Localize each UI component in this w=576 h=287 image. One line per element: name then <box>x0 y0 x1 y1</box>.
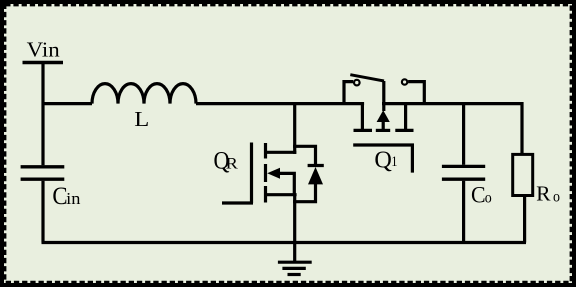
svg-text:o: o <box>485 189 492 206</box>
svg-text:1: 1 <box>391 154 397 170</box>
svg-text:Q: Q <box>374 147 392 173</box>
svg-text:in: in <box>66 189 81 208</box>
svg-text:R: R <box>226 156 239 173</box>
svg-text:Vin: Vin <box>27 38 61 62</box>
svg-text:R: R <box>536 182 550 206</box>
svg-text:o: o <box>553 189 560 206</box>
svg-text:C: C <box>471 182 486 208</box>
svg-text:L: L <box>134 107 149 131</box>
